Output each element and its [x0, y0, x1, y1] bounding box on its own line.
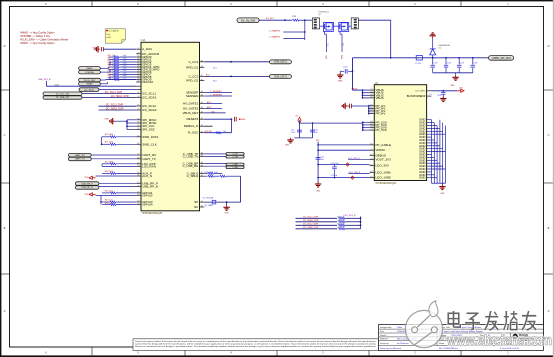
- svg-text:SVN Rev:: SVN Rev:: [380, 339, 389, 341]
- net VBUS_DET resistor label 330: [204, 111, 225, 113]
- IC U2 GND pin ladder to ground: [419, 118, 445, 195]
- svg-text:SENSEN: SENSEN: [186, 94, 198, 98]
- svg-text:PP_CABLE: PP_CABLE: [376, 143, 392, 147]
- sheet outer border left: [0, 0, 1, 357]
- nets I2C_SCL2_DVR / I2C_SDA2_DVR: [99, 104, 137, 111]
- capacitor C1 / GND at U1 A_DAC: [93, 46, 137, 52]
- transistor Q1-A: [323, 22, 334, 31]
- svg-text:LDO_1V8D: LDO_1V8D: [376, 176, 392, 180]
- svg-text:Ian McIntosh: Ian McIntosh: [397, 342, 408, 345]
- svg-text:2. SWAP5V: 2. SWAP5V: [269, 36, 281, 39]
- sheet outer border bottom: [0, 355, 554, 357]
- svg-text:USB_RP_N: USB_RP_N: [81, 187, 93, 189]
- svg-text:I2C_SDA1_DVR: I2C_SDA1_DVR: [303, 219, 319, 222]
- svg-text:GPIO10: GPIO10: [142, 80, 153, 84]
- pull resistors R26 at U1 SBU pins: [204, 172, 240, 202]
- svg-text:RESETZ: RESETZ: [186, 117, 198, 121]
- wire U1 SP pin to ground: [202, 197, 240, 215]
- svg-text:A: A: [4, 309, 6, 313]
- series resistors R10-R19 at U1 GPIO pins: [108, 55, 137, 80]
- PP_CABLE/VDDIO nets with capacitor C17 and GND: [315, 140, 370, 193]
- svg-text:LDO_BMC: LDO_BMC: [415, 91, 426, 93]
- svg-text:NC1: NC1: [213, 67, 217, 69]
- svg-text:GND: GND: [316, 190, 321, 192]
- FET source stubs: [320, 26, 352, 59]
- svg-text:PP_5V0: PP_5V0: [376, 128, 387, 132]
- svg-text:SWAP: SWAP: [86, 83, 93, 86]
- svg-text:D: D: [4, 44, 6, 48]
- svg-text:Designed for:: Designed for:: [380, 327, 392, 329]
- net USB_3V3_R wire to U1: [38, 79, 141, 86]
- svg-text:A: A: [548, 309, 550, 313]
- svg-text:Drawn by:: Drawn by:: [380, 343, 389, 345]
- wire USB power rail: [353, 57, 489, 59]
- svg-text:U1A: U1A: [141, 39, 146, 42]
- svg-text:P10: P10: [429, 94, 432, 96]
- capacitor C104 to GND: [337, 67, 353, 83]
- svg-text:WAKE --> App Config Option: WAKE --> App Config Option: [20, 31, 55, 35]
- svg-text:GND: GND: [105, 119, 110, 121]
- svg-text:C_UBN: C_UBN: [232, 167, 238, 169]
- IC U2 left pin stubs and names: [370, 88, 392, 180]
- svg-text:STROBE: STROBE: [85, 72, 94, 74]
- svg-text:GND: GND: [241, 119, 246, 121]
- svg-text:0.1uF: 0.1uF: [460, 62, 464, 64]
- svg-text:SP: SP: [194, 200, 198, 204]
- svg-text:HV_GATE2: HV_GATE2: [183, 107, 199, 111]
- pull resistors R20/R21 at U1 SWD pins: [101, 134, 137, 145]
- decoupling capacitors C28-C31 with GND: [431, 57, 478, 87]
- net labels C_USB_TP / C_USB_TN: [204, 153, 244, 159]
- 5V rail with capacitors C15/C16 to U2 PP_5V: [285, 116, 370, 147]
- svg-text:D: D: [548, 44, 550, 48]
- svg-text:VDDIO: VDDIO: [376, 148, 386, 152]
- svg-text:R25 1.0k: R25 1.0k: [105, 200, 113, 202]
- svg-text:I2C_SCL_3V3: I2C_SCL_3V3: [56, 93, 70, 95]
- svg-text:Public: Public: [397, 327, 402, 329]
- svg-text:PLUG_DRV --> Cable Orientation: PLUG_DRV --> Cable Orientation Reset: [20, 38, 68, 42]
- svg-text:R104: R104: [55, 84, 59, 86]
- svg-text:UART_TX: UART_TX: [75, 158, 85, 161]
- svg-text:R31 330: R31 330: [205, 131, 212, 133]
- svg-text:R24 1.0k: R24 1.0k: [105, 191, 113, 193]
- IC U1 body: [141, 42, 200, 211]
- ground tie at U1 SPI pins: [105, 118, 137, 130]
- svg-text:SPI_SSZ: SPI_SSZ: [142, 128, 155, 132]
- svg-text:Texas Instruments and/or its l: Texas Instruments and/or its licensors d…: [135, 340, 377, 343]
- net labels WAKE / STROBE: [79, 67, 109, 74]
- svg-text:LDO_1V8A: LDO_1V8A: [376, 171, 391, 175]
- svg-text:USB_3V3_R: USB_3V3_R: [38, 79, 51, 81]
- svg-text:I2C_MAST: I2C_MAST: [205, 204, 215, 207]
- sheet outer border right: [553, 0, 554, 357]
- net LDO_3V3_R at U2 VOUT_3V3: [348, 158, 370, 160]
- svg-text:I2C_SCL1_DVR: I2C_SCL1_DVR: [303, 217, 319, 219]
- power flag and pull R23 at U1 AUX pins: [84, 171, 136, 179]
- svg-text:I2C_ADDR: I2C_ADDR: [109, 30, 119, 33]
- net 5V_IN_SW, series resistor R28: [237, 16, 312, 23]
- net labels C_USB_BP / C_USB_BN: [204, 163, 244, 169]
- watermark logo circle: [405, 301, 442, 348]
- net labels USB_RP_P / USB_RP_N: [75, 182, 136, 189]
- svg-text:VOUT_3V3: VOUT_3V3: [376, 158, 392, 162]
- svg-text:LSX_RXN: LSX_RXN: [142, 164, 156, 168]
- VBUS feed to U2: [351, 88, 369, 98]
- svg-text:RPD_G1: RPD_G1: [186, 65, 198, 69]
- design note text: [20, 31, 68, 46]
- svg-text:LDO: LDO: [459, 88, 464, 90]
- svg-text:GPNU2: GPNU2: [142, 194, 153, 198]
- svg-text:A_DAC: A_DAC: [142, 47, 153, 51]
- transistor Q1-B: [338, 22, 349, 31]
- svg-text:HV_GATE1: HV_GATE1: [183, 102, 199, 106]
- svg-text:R_OSC: R_OSC: [188, 131, 199, 135]
- wire VBUS switch output to USB rail: [358, 20, 391, 58]
- pull resistor R22 at U1 LSX pins: [102, 162, 136, 167]
- svg-text:GND: GND: [440, 193, 445, 195]
- svg-text:STROBE --> Relay 1 Drv: STROBE --> Relay 1 Drv: [20, 34, 51, 38]
- nets AO1 / AO2: [204, 67, 222, 109]
- svg-text:0.1uF: 0.1uF: [447, 62, 451, 64]
- svg-text:GND: GND: [419, 176, 425, 180]
- svg-text:I2C_SCL1_DVR: I2C_SCL1_DVR: [105, 91, 123, 94]
- svg-text:USB5_DP_DM: USB5_DP_DM: [492, 56, 512, 60]
- svg-text:UART_TX: UART_TX: [142, 157, 156, 161]
- svg-text:D1: D1: [439, 47, 441, 49]
- svg-text:L2 210: L2 210: [415, 63, 421, 65]
- svg-text:1. SWAP5V: 1. SWAP5V: [269, 29, 281, 32]
- svg-text:www.elecfans.com: www.elecfans.com: [446, 333, 552, 349]
- svg-text:Drawn by: Ian McIntosh: Drawn by: Ian McIntosh: [380, 347, 401, 350]
- svg-text:LDO_3V3: LDO_3V3: [376, 164, 390, 168]
- net labels PLUG_DRV / SWAP: [79, 78, 137, 85]
- power FET package Q1 pins A: [312, 12, 329, 29]
- net labels I2C_SCL_3V3 / I2C_SDA_3V3 wires to U1: [43, 91, 136, 99]
- disclaimer note box: [133, 339, 379, 351]
- svg-text:I2C_SDA1_DVR: I2C_SDA1_DVR: [111, 95, 129, 98]
- ESD diode D1 to GND: [430, 33, 451, 59]
- ferrite bead L2: [415, 56, 422, 65]
- wire U1 C_CC2 to net label COM_DDC2: [204, 75, 291, 79]
- svg-text:SWD_CLK: SWD_CLK: [142, 142, 157, 146]
- svg-text:COM_DDC2: COM_DDC2: [274, 75, 288, 78]
- net labels UART_RX / UART_TX: [68, 153, 136, 160]
- svg-text:GND: GND: [285, 145, 290, 147]
- svg-text:I2C_SCL2_DVR: I2C_SCL2_DVR: [303, 224, 319, 226]
- svg-text:C_USB_TN: C_USB_TN: [183, 155, 199, 159]
- svg-text:4.7 TVS51A: 4.7 TVS51A: [202, 197, 213, 200]
- power flag and pull R24 at U1 GPNU1/2: [84, 191, 136, 196]
- power FET package Q1 pins B: [351, 18, 358, 29]
- svg-text:Sheet:: Sheet:: [439, 342, 445, 345]
- svg-text:warrant that this design will: warrant that this design will meet the s…: [135, 343, 376, 346]
- nets C_SENSEP / C_SENSEN: [204, 91, 232, 97]
- watermark chinese text: [448, 311, 536, 330]
- capacitor C14 at U2 PP_HV pins: [342, 103, 369, 115]
- svg-text:Part:: Part:: [380, 330, 385, 333]
- svg-text:BUSPOWERZ: BUSPOWERZ: [407, 94, 426, 98]
- I2C pull-up resistors R30-R33 to LDO_3V3_R: [296, 215, 362, 230]
- svg-text:5V_ECT: 5V_ECT: [266, 18, 275, 20]
- gate drive nets SWAP5V: [269, 19, 306, 40]
- svg-text:PLUG_DRV: PLUG_DRV: [84, 80, 96, 82]
- capacitor C106 and power flag at U2 LDO_BMC: [431, 88, 464, 102]
- svg-text:USB_RP_P: USB_RP_P: [82, 183, 94, 185]
- svg-text:GND: GND: [225, 212, 230, 214]
- svg-text:C_USB_BN: C_USB_BN: [182, 164, 198, 168]
- svg-text:TPS65982ABZQZR: TPS65982ABZQZR: [141, 212, 162, 215]
- svg-text:C: C: [4, 133, 6, 137]
- svg-text:R20 100k: R20 100k: [105, 134, 114, 136]
- svg-text:PP_HV: PP_HV: [376, 112, 386, 116]
- svg-text:1.0k: 1.0k: [223, 131, 226, 133]
- svg-text:SWD_DATA: SWD_DATA: [142, 135, 158, 139]
- IC U2 body: [374, 85, 426, 181]
- svg-text:B: B: [4, 226, 6, 230]
- svg-text:RPD_G2: RPD_G2: [186, 79, 198, 83]
- IC U2 right top pin stubs: [407, 91, 432, 98]
- pull resistors R25/R26 at U1 GPNU3/4: [100, 196, 136, 206]
- svg-text:C: C: [548, 133, 550, 137]
- svg-text:C_CC1: C_CC1: [188, 60, 198, 64]
- svg-text:AC2: AC2: [206, 74, 210, 77]
- svg-text:Source is convenient for the d: Source is convenient for the design is p…: [135, 345, 377, 348]
- svg-text:SWAP --> App Config Option: SWAP --> App Config Option: [20, 41, 55, 45]
- svg-text:TPS65982ABZQZR: TPS65982ABZQZR: [375, 182, 396, 185]
- svg-text:GPNU4: GPNU4: [142, 203, 153, 207]
- svg-text:I2C_SDA2: I2C_SDA2: [142, 108, 157, 112]
- svg-text:I2C_SDA_3V3: I2C_SDA_3V3: [56, 96, 70, 99]
- wire rail down to U2 VBUS: [352, 58, 354, 90]
- svg-text:Stock #:: Stock #:: [380, 334, 388, 337]
- svg-text:USB_RP_N: USB_RP_N: [142, 185, 158, 189]
- svg-text:WAKE: WAKE: [86, 67, 93, 70]
- svg-text:R21 100k: R21 100k: [105, 142, 114, 144]
- svg-text:DEBUG: DEBUG: [376, 153, 387, 157]
- svg-text:C_UTN: C_UTN: [232, 156, 238, 158]
- svg-text:I2C_SDA1: I2C_SDA1: [142, 96, 157, 100]
- svg-text:VBUS: VBUS: [376, 96, 384, 100]
- net label USB_DP_DM: [489, 56, 514, 61]
- svg-text:I2C_SDA2_DVR: I2C_SDA2_DVR: [303, 226, 319, 229]
- note N1 (yellow sticky): [105, 29, 125, 43]
- svg-text:C_SBU2: C_SBU2: [187, 174, 199, 178]
- svg-text:I2C_IRQZ: I2C_IRQZ: [84, 89, 94, 91]
- LDO rails with capacitors C18/C19: [317, 163, 369, 179]
- svg-text:AUX_N: AUX_N: [142, 174, 152, 178]
- svg-text:GND: GND: [450, 85, 455, 87]
- svg-text:GND: GND: [338, 80, 343, 82]
- svg-text:C106: C106: [437, 95, 441, 97]
- svg-text:0.1uF: 0.1uF: [433, 62, 437, 64]
- title block: [379, 325, 544, 351]
- svg-text:COM_DDC1: COM_DDC1: [274, 61, 288, 64]
- IC U1 left pin stubs and names: [136, 47, 160, 206]
- svg-text:NC2: NC2: [213, 81, 217, 83]
- reset RC network with GND: [204, 117, 246, 134]
- sheet outer border top: [0, 0, 554, 1]
- svg-text:UART_RX: UART_RX: [75, 154, 86, 157]
- wire U1 C_CC1 to net label COM_DDC1: [204, 60, 291, 64]
- svg-text:5V_IN_SW: 5V_IN_SW: [241, 18, 256, 22]
- svg-text:DEBUG_N: DEBUG_N: [184, 124, 199, 128]
- svg-text:LDO_3V3_R: LDO_3V3_R: [344, 215, 356, 217]
- svg-text:VBUS_DET: VBUS_DET: [182, 111, 198, 115]
- svg-text:0.1uF: 0.1uF: [473, 62, 477, 64]
- IC U1 right pin stubs and names: [182, 60, 204, 210]
- svg-text:B: B: [548, 226, 550, 230]
- svg-text:3V3: 3V3: [316, 140, 319, 142]
- net label I2C_IRQZ: [79, 88, 141, 92]
